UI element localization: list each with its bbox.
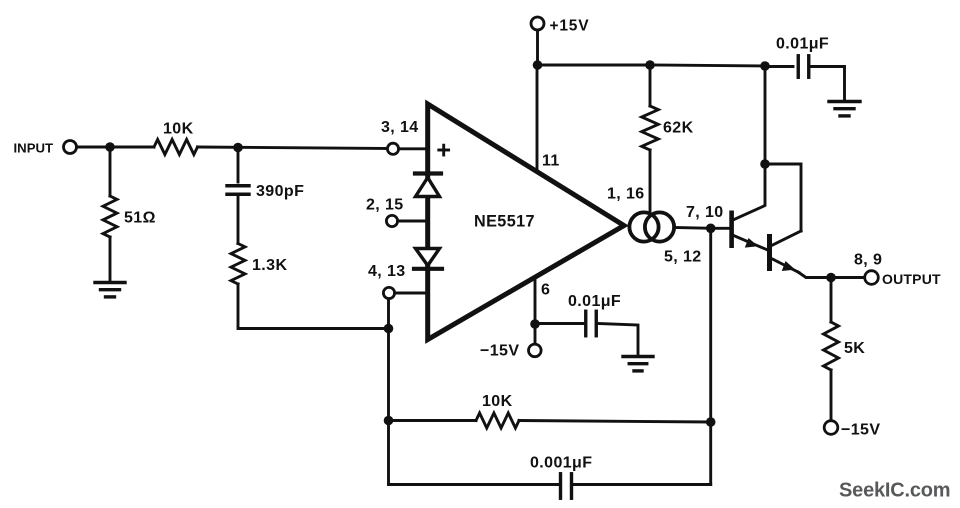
wire node L to OUTPUT terminal [831,276,865,279]
label 51ohm (R2) [124,210,156,227]
capacitor C4 0.001uF (feedback) [561,474,572,499]
wire node B down to C1 [237,148,240,182]
svg-text:NE5517: NE5517 [474,213,535,231]
wire pin 11 to +15V rail [536,65,539,172]
label -15V (pin 6) [480,343,519,360]
wire +15V terminal to rail [536,30,539,65]
node F (rail at pin 11) [533,60,543,70]
label 7, 10 [686,204,724,221]
resistor R2 51ohm (input shunt) [103,196,117,237]
resistor R4 62K (bias) [642,106,659,150]
label NE5517 [474,213,535,231]
wire rail node F to node G [538,64,651,67]
terminal pin 4,13 [383,287,394,298]
wire node K to Q2 collector branch [765,164,801,231]
transistor Q1 collector [733,164,765,220]
wire R4 to OTA output symbol [649,150,652,216]
wire terminal 2,15 to diode chain [398,220,428,223]
wire R1 to terminal 3,14 [198,147,388,149]
transistor Q2 base bar [767,234,772,271]
transistor Q1 base bar [729,211,734,249]
transistor Q2 emitter [772,259,832,278]
label 8, 9 [854,252,882,269]
svg-text:0.001μF: 0.001μF [530,455,592,472]
label + (non-inverting input) [439,145,449,155]
svg-text:−15V: −15V [480,343,519,360]
svg-text:INPUT: INPUT [14,141,54,156]
wire node E to C2 [535,322,584,325]
label 10K (R1) [163,121,194,138]
label 0.01uF (C3) [776,36,829,53]
svg-text:0.01μF: 0.01μF [776,36,829,53]
ground (supply bypass) [829,102,860,116]
terminal -15V (pin 6) [529,344,542,357]
node D (feedback left, 10K row) [384,416,394,426]
label 1, 16 [607,186,645,203]
terminal OUTPUT [865,271,879,285]
svg-text:62K: 62K [663,120,694,137]
wire R2 to ground [109,237,112,281]
svg-text:7, 10: 7, 10 [686,204,724,221]
svg-text:1.3K: 1.3K [252,257,287,274]
wire node I to Q1 base [711,227,730,230]
label 5, 12 [664,249,702,266]
node I (pin 7,10 junction) [706,224,716,234]
OTA output mirror symbol (pins 1,16 / 5,12) [629,212,674,241]
wire C2 to ground [598,324,639,356]
label +15V [550,18,590,35]
wire OTA output to node I [674,226,711,230]
node C (feedback left junction) [384,324,394,334]
terminal INPUT [64,141,77,154]
wire terminal 3,14 to op-amp input [399,147,428,150]
terminal pin 3,14 [387,143,398,154]
wire node L down to R5 [830,278,833,323]
diode D2 (lower, on U1 input edge) [414,249,442,269]
label 3, 14 [381,119,419,136]
svg-text:0.01μF: 0.01μF [568,293,621,310]
svg-text:11: 11 [542,153,560,170]
label 2, 15 [366,197,404,214]
node A (input junction) [105,142,115,152]
svg-text:3, 14: 3, 14 [381,119,419,136]
label 0.01uF (C2) [568,293,621,310]
op-amp U1 NE5517 (triangle) [428,104,624,340]
capacitor C3 0.01uF (supply bypass) [798,56,809,78]
label 5K (R5) [844,340,865,357]
svg-text:−15V: −15V [841,422,880,439]
ground (pin-6 bypass) [623,357,653,371]
label OUTPUT [882,271,941,287]
wire node A down to R2 [109,147,112,196]
label 6 (pin) [541,282,550,299]
node K (collector tie) [760,159,770,169]
label 0.001uF (C4) [530,455,592,472]
terminal +15V [531,17,544,30]
capacitor C1 390pF [227,186,249,195]
wire node K up to rail node H [764,66,767,164]
wire rail node H to C3 [765,65,793,68]
label 4, 13 [368,263,406,280]
wire node I down to node J (feedback) [709,228,712,422]
svg-text:SeekIC.com: SeekIC.com [839,480,950,502]
resistor R1 10K (series input) [154,140,198,155]
wire pin 6 down to node E [534,279,537,325]
wire terminal 4,13 down to node C [387,299,390,329]
wire terminal 4,13 to op-amp edge [395,292,428,295]
svg-text:8, 9: 8, 9 [854,252,882,269]
svg-text:OUTPUT: OUTPUT [882,271,941,287]
wire node G to R4 [649,65,652,106]
resistor R6 10K (feedback) [476,413,519,428]
transistor Q1 emitter (into Q2 base) [734,236,767,250]
wire C1 to R3 [237,194,240,243]
label INPUT [14,141,54,156]
terminal pin 2,15 [386,215,397,226]
node G (rail at 62K) [645,60,655,70]
node L (output junction) [826,273,836,283]
svg-text:390pF: 390pF [256,183,304,200]
wire 0.001uF row right [572,483,711,486]
svg-text:2, 15: 2, 15 [366,197,404,214]
label 62K (R4) [663,120,694,137]
wire node D down to 0.001uF row [387,421,390,485]
svg-text:4, 13: 4, 13 [368,263,406,280]
wire C3 to ground [810,67,845,101]
svg-text:1, 16: 1, 16 [607,186,645,203]
label 1.3K (R3) [252,257,287,274]
svg-text:+15V: +15V [550,18,590,35]
wire rail node G to node H [650,65,765,66]
svg-text:6: 6 [541,282,550,299]
wire node E to -15V terminal [534,324,537,344]
svg-text:10K: 10K [482,393,513,410]
wire 0.001uF row left [389,483,561,486]
resistor R5 5K (output load) [824,322,839,370]
wire node D to R6 [389,419,477,422]
svg-text:10K: 10K [163,121,194,138]
terminal -15V (output load) [824,421,838,435]
node B (R1 output junction) [233,143,243,153]
node E (pin-6 junction) [530,319,540,329]
wire node J down to 0.001uF row [709,422,712,485]
resistor R3 1.3K [231,244,245,285]
node J (feedback right, 10K row) [706,417,716,427]
wire R5 to -15V terminal [830,370,833,421]
wire input terminal to node A [77,146,111,149]
svg-text:5K: 5K [844,340,865,357]
watermark SeekIC.com [839,480,950,502]
wire R3 down and right to node C [238,284,389,329]
label 10K (R6) [482,393,513,410]
label 11 (pin) [542,153,560,170]
capacitor C2 0.01uF (pin-6 bypass) [586,311,597,336]
label -15V (output load) [841,422,880,439]
ground (input shunt) [95,283,125,297]
transistor Q2 collector [772,231,802,246]
svg-text:5, 12: 5, 12 [664,249,702,266]
wire node C down to node D [387,329,390,421]
node H (rail at Q1 collector) [760,61,770,71]
label 390pF (C1) [256,183,304,200]
diode D1 (upper, on U1 input edge) [415,174,441,197]
wire R6 to node J [519,421,711,423]
svg-text:51Ω: 51Ω [124,210,156,227]
wire node A to R1 [110,146,154,149]
